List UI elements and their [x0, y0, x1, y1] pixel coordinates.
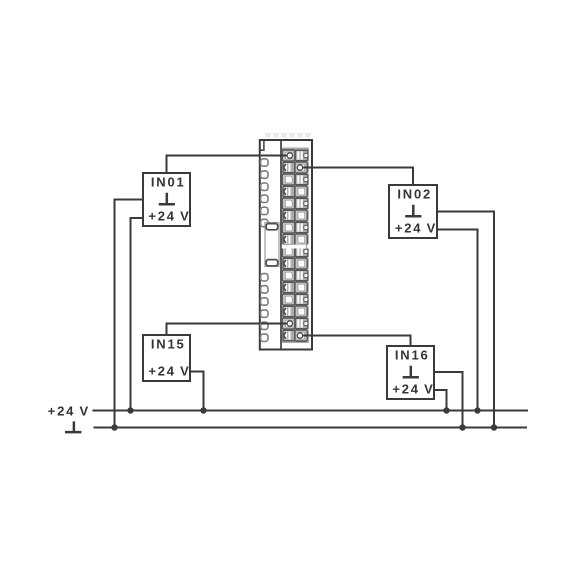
svg-text:+24 V: +24 V	[392, 381, 434, 396]
connector terminal row 7	[282, 222, 308, 233]
junction IN16 ground on rail	[459, 424, 465, 430]
svg-text:IN16: IN16	[395, 348, 430, 363]
connector terminal row 12	[283, 282, 307, 293]
svg-text:+24 V: +24 V	[148, 363, 190, 378]
connector terminal row 1	[282, 150, 308, 161]
wire stub out of connector pin 16	[300, 335, 313, 337]
connector terminal row 14	[283, 306, 307, 317]
wire IN15 +24V to +24V rail	[190, 372, 204, 411]
connector top teeth	[265, 133, 311, 138]
wire IN02 ground to 0V rail	[437, 212, 494, 428]
input block IN16	[387, 346, 435, 399]
connector contact strip frame	[281, 141, 309, 349]
connector terminal row 4	[283, 186, 307, 197]
wire IN01 top to connector pin 1	[167, 156, 263, 175]
wire stub into connector pin 15	[261, 323, 290, 325]
input block IN01	[143, 173, 191, 226]
junction IN01 ground on rail	[111, 424, 117, 430]
junction IN02 +24V on rail	[474, 407, 480, 413]
junction IN16 +24V on rail	[443, 407, 449, 413]
connector terminal strip body	[260, 140, 312, 350]
connector terminal row 11	[282, 270, 308, 281]
svg-text:IN15: IN15	[151, 337, 186, 352]
wire stub into connector pin 1	[261, 155, 290, 157]
wire 0V ground rail	[94, 427, 528, 429]
connector contact strip seam	[282, 244, 309, 249]
svg-text:IN02: IN02	[397, 187, 432, 202]
junction IN01 +24V on rail	[127, 407, 133, 413]
input block IN15	[143, 335, 191, 381]
wire IN01 +24V to +24V rail	[131, 218, 144, 411]
ground symbol at 0V rail label	[65, 421, 81, 432]
wire +24V supply rail	[93, 410, 529, 412]
connector terminal row 2	[283, 162, 307, 173]
wire connector pin 16 to IN16 top	[311, 336, 411, 348]
connector top-left outline notch	[260, 141, 264, 150]
wire IN15 top to connector pin 15	[167, 324, 263, 337]
connector left ribs lower group	[261, 274, 268, 342]
wire IN01 ground to 0V rail	[115, 200, 144, 428]
wire IN16 ground to 0V rail	[434, 372, 463, 428]
wire IN16 +24V to +24V rail	[434, 390, 447, 411]
connector left ribs upper group	[261, 159, 268, 227]
wire IN02 +24V to +24V rail	[437, 230, 478, 411]
terminal contact pin 2	[297, 165, 302, 170]
junction IN15 +24V on rail	[200, 407, 206, 413]
connector terminal row 9	[282, 246, 308, 257]
connector terminal row 16	[283, 330, 307, 341]
terminal contact pin 15	[287, 321, 292, 326]
connector terminal row 5	[282, 198, 308, 209]
terminal contact pin 16	[297, 333, 302, 338]
connector terminal row 10	[283, 258, 307, 269]
connector terminal row 8	[283, 234, 307, 245]
svg-text:IN01: IN01	[151, 175, 186, 190]
terminal contact pin 1	[287, 153, 292, 158]
wire connector pin 2 to IN02 top	[311, 168, 413, 187]
junction IN02 ground on rail	[491, 424, 497, 430]
label +24 V supply rail	[48, 403, 90, 418]
svg-text:+24 V: +24 V	[48, 403, 90, 418]
connector terminal row 3	[282, 174, 308, 185]
connector terminal row 15	[282, 318, 308, 329]
connector terminal row 13	[282, 294, 308, 305]
input block IN02	[389, 185, 437, 238]
svg-text:+24 V: +24 V	[395, 220, 437, 235]
wire stub out of connector pin 2	[300, 167, 313, 169]
connector terminal row 6	[283, 210, 307, 221]
svg-text:+24 V: +24 V	[148, 208, 190, 223]
connector keying latch housing	[265, 223, 279, 267]
